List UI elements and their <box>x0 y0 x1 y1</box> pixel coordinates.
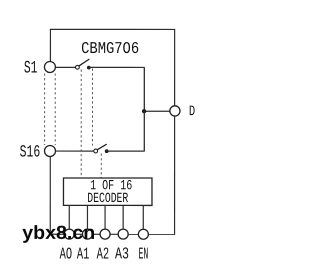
junction dot at mux rail <box>142 109 146 113</box>
terminal EN <box>138 229 148 239</box>
switch S16 pole contact <box>94 149 98 153</box>
svg-text:D: D <box>189 104 195 120</box>
terminal A2 <box>100 229 110 239</box>
wire right rail (top bus down through D to bottom corner) <box>174 29 176 234</box>
svg-text:A1: A1 <box>77 244 90 263</box>
dashed continuation line left (S1..S16 terminals, left edge) <box>44 73 46 145</box>
svg-text:A2: A2 <box>97 244 110 263</box>
wire S1 to switch 1 <box>55 66 75 68</box>
svg-text:DECODER: DECODER <box>87 191 128 207</box>
wire top bus <box>50 28 175 30</box>
switch S1 arm <box>79 59 89 66</box>
terminal D <box>170 106 180 116</box>
decoder pin A0 <box>68 205 70 229</box>
terminal S16 <box>44 145 55 156</box>
svg-text:AO: AO <box>60 244 73 263</box>
terminal A0 <box>64 229 74 239</box>
wire bottom bus <box>50 233 175 235</box>
wire junction to D <box>144 110 170 112</box>
switch S1 throw contact dot <box>87 66 91 70</box>
wire S1 riser to top bus <box>49 29 51 61</box>
wire switch 16 to mux rail <box>108 150 144 152</box>
dashed continuation line between switches <box>91 68 93 145</box>
dashed control link switch 1 to decoder <box>80 69 82 177</box>
svg-text:S1: S1 <box>24 59 38 79</box>
wire S16 drop to bottom bus <box>49 156 51 234</box>
dashed continuation line right (S1..S16 terminals, right edge) <box>54 73 56 144</box>
terminal S1 <box>44 61 55 72</box>
svg-text:S16: S16 <box>20 144 41 163</box>
switch S16 arm <box>97 144 106 150</box>
decoder pin A1 <box>86 205 88 229</box>
wire mux rail vertical <box>143 67 145 151</box>
decoder box U1 <box>63 178 152 205</box>
decoder pin EN <box>142 205 144 229</box>
terminal A3 <box>118 229 128 239</box>
svg-text:ybx8.cn: ybx8.cn <box>22 223 95 244</box>
svg-text:EN: EN <box>138 244 148 263</box>
decoder pin A2 <box>104 205 106 229</box>
switch S1 pole contact <box>76 65 80 69</box>
terminal A1 <box>82 229 92 239</box>
wire switch 1 to mux rail <box>91 66 145 68</box>
wire S16 to switch 16 <box>56 150 94 152</box>
switch S16 throw contact dot <box>105 149 109 153</box>
svg-text:A3: A3 <box>115 244 129 263</box>
decoder pin A3 <box>122 205 124 229</box>
dashed control link switch 16 to decoder <box>100 153 102 177</box>
svg-text:CBMG7O6: CBMG7O6 <box>81 39 139 58</box>
